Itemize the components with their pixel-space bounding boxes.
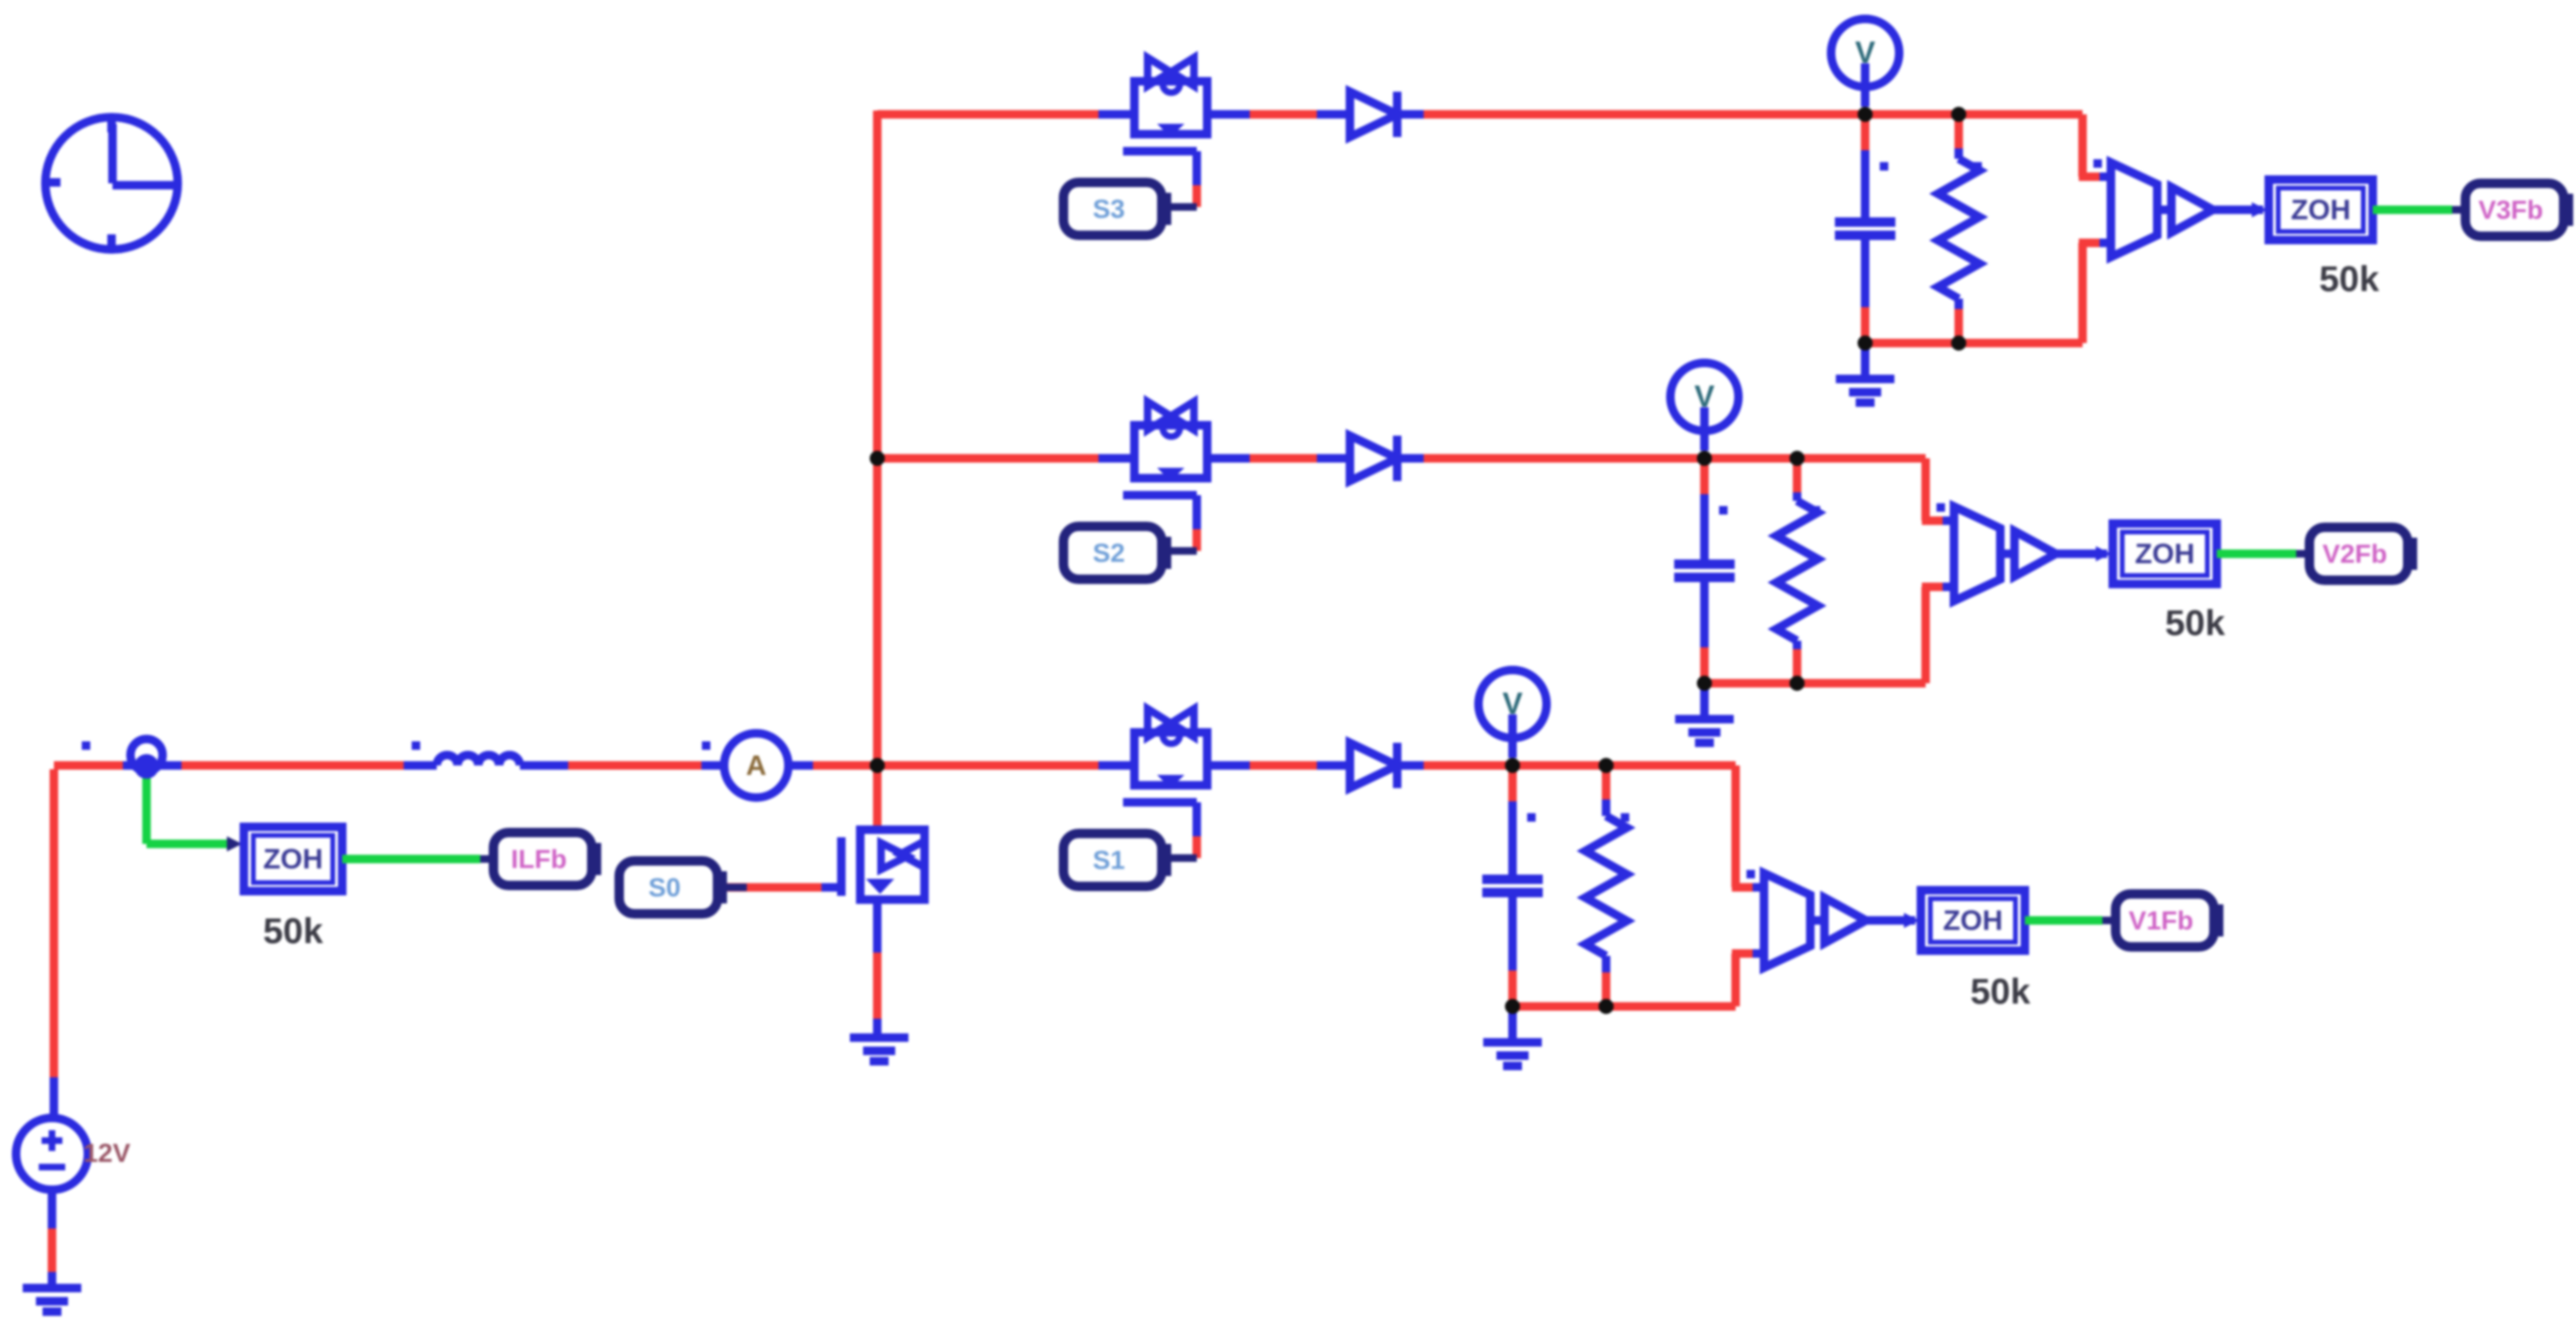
capacitor C3 bbox=[1861, 114, 1870, 150]
wire buffer to ZOH 2 bbox=[2056, 550, 2107, 558]
wire load top rail 3 bbox=[1865, 111, 2083, 119]
main input wire bbox=[54, 762, 123, 770]
gate label S3 bbox=[1156, 193, 1171, 225]
net label V2Fb bbox=[2402, 538, 2417, 570]
voltmeter V2 bbox=[1670, 363, 1738, 431]
voltage sensor 1 bbox=[1747, 870, 1755, 879]
svg-text:V2Fb: V2Fb bbox=[2323, 539, 2387, 568]
svg-text:50k: 50k bbox=[263, 912, 323, 952]
diode D1 bbox=[1317, 762, 1350, 770]
diode D2 bbox=[1317, 455, 1350, 463]
voltmeter V1 bbox=[1478, 670, 1547, 738]
wire sensor top 1 bbox=[1732, 765, 1740, 887]
gain buffer 1 bbox=[1810, 917, 1824, 925]
gate wire of S3 bbox=[1193, 151, 1202, 185]
wire buffer to ZOH 1 bbox=[1866, 917, 1915, 925]
wire diode D2 to load bbox=[1424, 455, 1704, 463]
wire load bottom rail 1 bbox=[1513, 1003, 1736, 1011]
gain buffer 2 bbox=[2000, 550, 2014, 558]
clock symbol bbox=[45, 117, 178, 249]
wire load top rail 1 bbox=[1513, 762, 1736, 770]
wire S0 to ground bbox=[873, 900, 882, 953]
svg-text:S0: S0 bbox=[648, 872, 681, 902]
svg-text:12V: 12V bbox=[83, 1138, 130, 1167]
wire bus to switch S1 bbox=[877, 762, 1098, 770]
junction dots layer bbox=[134, 754, 159, 779]
MOSFET switch S3 bbox=[1134, 81, 1207, 134]
svg-text:ZOH: ZOH bbox=[263, 844, 322, 875]
wire source to ground bbox=[48, 1190, 57, 1228]
wire voltmeter V3 stub bbox=[1861, 63, 1870, 107]
MOSFET S0 bbox=[821, 884, 841, 892]
wire diode D3 to load bbox=[1424, 111, 1865, 119]
svg-text:A: A bbox=[746, 750, 767, 782]
svg-text:S3: S3 bbox=[1093, 194, 1125, 223]
wire bus to switch S3 bbox=[877, 111, 1098, 119]
wire sensor top 3 bbox=[2079, 114, 2087, 177]
signal wire ZOH to label 1 bbox=[2025, 917, 2102, 925]
net label ILFb bbox=[586, 843, 601, 875]
gate wire of S2 bbox=[1193, 495, 1202, 529]
svg-text:S2: S2 bbox=[1093, 538, 1125, 567]
gate wire of S0 bbox=[721, 884, 821, 892]
ground load 2 bbox=[1701, 683, 1709, 717]
svg-text:50k: 50k bbox=[2319, 260, 2379, 300]
signal wire ZOH to label 2 bbox=[2217, 550, 2296, 558]
ZOH block 3 bbox=[2269, 180, 2373, 240]
voltage sensor 3 bbox=[2094, 160, 2102, 168]
wire switch S2 to diode D2 bbox=[1207, 455, 1250, 463]
wire bus to switch S2 bbox=[877, 455, 1098, 463]
wire sensor bottom 1 bbox=[1732, 953, 1740, 1006]
ground source bbox=[23, 1284, 81, 1293]
svg-text:S1: S1 bbox=[1093, 845, 1125, 874]
wire diode D1 to load bbox=[1424, 762, 1513, 770]
resistor R2 bbox=[1793, 458, 1802, 492]
ammeter A1 bbox=[702, 742, 711, 750]
capacitor C2 bbox=[1701, 458, 1709, 494]
voltage source V1 12V bbox=[50, 769, 59, 1077]
wire voltmeter V1 stub bbox=[1509, 714, 1517, 758]
diode D3 bbox=[1317, 111, 1350, 119]
svg-text:V1Fb: V1Fb bbox=[2129, 905, 2193, 935]
svg-text:50k: 50k bbox=[1970, 972, 2031, 1012]
wire probe to inductor bbox=[182, 762, 404, 770]
svg-text:50k: 50k bbox=[2165, 604, 2225, 644]
svg-text:ILFb: ILFb bbox=[510, 844, 566, 873]
wire load bottom rail 2 bbox=[1704, 679, 1926, 688]
wire switch S3 to diode D3 bbox=[1207, 111, 1250, 119]
svg-text:ZOH: ZOH bbox=[1943, 905, 2002, 936]
gain buffer 3 bbox=[2157, 206, 2171, 215]
ZOH block IL bbox=[244, 827, 342, 891]
ZOH block 2 bbox=[2113, 524, 2217, 584]
gate label S0 bbox=[712, 871, 727, 903]
wire inductor to ammeter bbox=[568, 762, 701, 770]
gate wire of S1 bbox=[1193, 802, 1202, 836]
ZOH block 1 bbox=[1921, 890, 2025, 951]
wire switch S1 to diode D1 bbox=[1207, 762, 1250, 770]
ground load 3 bbox=[1861, 343, 1870, 377]
resistor R1 bbox=[1602, 765, 1611, 799]
gate label S1 bbox=[1156, 844, 1171, 876]
MOSFET switch S1 bbox=[1134, 732, 1207, 785]
wire sensor bottom 3 bbox=[2079, 243, 2087, 343]
wire load bottom rail 3 bbox=[1865, 339, 2083, 348]
svg-text:ZOH: ZOH bbox=[2135, 539, 2194, 570]
wire buffer to ZOH 3 bbox=[2213, 206, 2263, 215]
signal wire probe to ZOH bbox=[143, 766, 151, 844]
wire voltmeter V2 stub bbox=[1701, 407, 1709, 451]
wire ammeter to bus bbox=[813, 762, 877, 770]
wire load top rail 2 bbox=[1704, 455, 1926, 463]
ground load 1 bbox=[1509, 1006, 1517, 1040]
MOSFET switch S2 bbox=[1134, 425, 1207, 478]
svg-text:V3Fb: V3Fb bbox=[2479, 195, 2543, 224]
resistor R3 bbox=[1955, 114, 1963, 148]
wire sensor top 2 bbox=[1922, 458, 1930, 521]
gate label S2 bbox=[1156, 537, 1171, 569]
voltmeter V3 bbox=[1831, 19, 1899, 87]
capacitor C1 bbox=[1509, 765, 1517, 801]
ground S0 bbox=[850, 1034, 908, 1042]
signal wire ZOH to label 3 bbox=[2373, 206, 2452, 215]
signal wire ZOH to ILFb bbox=[342, 855, 480, 864]
net label V3Fb bbox=[2558, 194, 2573, 226]
svg-text:ZOH: ZOH bbox=[2291, 195, 2350, 226]
dc bus vertical wire bbox=[873, 111, 882, 830]
voltage sensor 2 bbox=[1937, 504, 1945, 512]
inductor L1 bbox=[412, 742, 421, 750]
net label V1Fb bbox=[2208, 904, 2223, 936]
wire sensor bottom 2 bbox=[1922, 587, 1930, 683]
current probe junction bbox=[82, 742, 91, 750]
